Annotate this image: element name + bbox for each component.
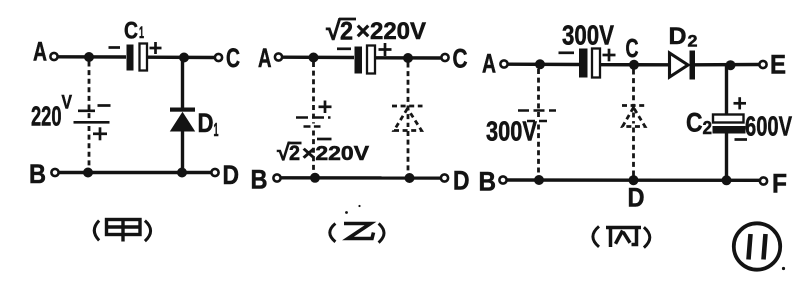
svg-text:C: C: [124, 18, 138, 45]
C2 reference label: [686, 108, 712, 139]
caption (bing): [593, 226, 650, 247]
svg-text:×220V: ×220V: [356, 18, 426, 45]
D1 reference label: [198, 108, 219, 140]
junction (top left): [309, 53, 319, 63]
svg-text:D: D: [453, 166, 470, 196]
svg-text:C: C: [453, 44, 468, 74]
svg-text:300V: 300V: [562, 20, 614, 51]
wire junction to diode D1: [181, 58, 184, 109]
junction (top, C2 branch): [726, 60, 736, 70]
caption (jia): [94, 220, 150, 242]
terminal E: [759, 61, 766, 68]
svg-text:2: 2: [688, 32, 698, 51]
wire dashed source top: [312, 62, 315, 124]
svg-text:1: 1: [214, 120, 219, 140]
junction (bottom, C2 branch): [722, 175, 732, 185]
C1 value label: [124, 18, 144, 45]
source plus sign: [93, 127, 107, 140]
wire dashed source top: [537, 69, 540, 118]
caption (yi): [330, 224, 384, 243]
wire capacitor to terminal C: [148, 56, 215, 60]
junction (bottom right): [177, 168, 187, 178]
C2 minus polarity: [735, 138, 748, 141]
svg-text:220: 220: [31, 101, 62, 132]
capacitor 300V: [579, 49, 600, 78]
capacitor minus polarity: [337, 47, 351, 50]
svg-text:√: √: [326, 16, 341, 46]
capacitor plus polarity: [379, 43, 392, 56]
diode D1: [170, 108, 195, 132]
svg-text:300V: 300V: [486, 116, 537, 147]
svg-text:B: B: [29, 159, 46, 189]
capacitor C1: [127, 44, 148, 71]
C1 minus polarity: [109, 46, 121, 49]
svg-text:F: F: [772, 169, 787, 199]
wire capacitor to terminal C: [376, 56, 441, 60]
junction (bottom left): [83, 168, 93, 178]
svg-text:1: 1: [139, 23, 144, 42]
figure number 11 (circled): [734, 223, 780, 269]
dashed diode (conducting path): [392, 106, 423, 131]
junction node D: [629, 175, 639, 185]
wire B to F (bottom): [507, 178, 760, 182]
wire diode to terminal E: [695, 63, 759, 67]
svg-text:A: A: [258, 43, 272, 73]
svg-text:600V: 600V: [745, 111, 792, 142]
C1 plus polarity: [150, 42, 162, 54]
source battery sqrt2x220V (dashed): [296, 118, 331, 127]
svg-text:2: 2: [703, 118, 713, 138]
wire dashed diode top: [632, 70, 635, 124]
terminal B: [51, 169, 58, 176]
wire junction to capacitor C2: [725, 65, 728, 115]
terminal D: [441, 174, 448, 181]
terminal A: [275, 53, 282, 60]
source battery 300V (dashed): [518, 111, 556, 122]
dashed diode (conducting path): [622, 106, 646, 127]
svg-text:A: A: [482, 49, 496, 79]
source minus sign: [98, 104, 111, 107]
wire diode to bottom: [181, 132, 184, 174]
wire B to D (bottom): [281, 176, 440, 180]
diode D2: [670, 51, 696, 80]
wire dashed source bottom: [88, 126, 91, 170]
svg-text:D: D: [223, 160, 240, 190]
terminal B: [499, 176, 506, 183]
wire dashed source top: [88, 62, 91, 120]
junction (bottom right): [405, 173, 415, 183]
terminal F: [760, 177, 767, 184]
terminal D: [211, 169, 218, 176]
wire A to capacitor: [508, 62, 579, 66]
wire dashed source bottom: [312, 131, 315, 175]
wire dashed diode top: [407, 63, 410, 128]
svg-text:B: B: [251, 165, 268, 195]
junction (bottom left): [534, 175, 544, 185]
terminal A: [500, 60, 507, 67]
junction (top left): [84, 52, 94, 62]
junction (top right): [179, 53, 189, 63]
terminal A: [50, 53, 57, 60]
svg-text:E: E: [770, 50, 786, 80]
capacitor minus polarity: [559, 51, 575, 54]
terminal C: [441, 54, 448, 61]
svg-text:×220V: ×220V: [302, 143, 370, 165]
capacitor plus polarity: [603, 49, 616, 62]
svg-text:C: C: [226, 43, 240, 73]
svg-text:C: C: [626, 33, 639, 63]
junction (bottom left): [310, 173, 320, 183]
source minus sign: [317, 138, 332, 141]
wire B to D (bottom): [59, 171, 211, 174]
svg-text:2: 2: [289, 142, 300, 165]
wire capacitor to diode: [600, 63, 670, 67]
C2 plus polarity: [734, 97, 747, 109]
junction (top left): [535, 59, 545, 69]
wire capacitor C2 to bottom: [725, 133, 728, 181]
wire dashed diode bottom: [632, 128, 635, 178]
svg-text:C: C: [686, 108, 703, 138]
sqrt2 x 220V top value label: [326, 16, 426, 46]
source battery 220V (dashed instantaneous): [74, 111, 110, 123]
wire dashed source bottom: [537, 125, 540, 177]
svg-text:B: B: [479, 167, 497, 197]
wire A to capacitor: [58, 55, 126, 59]
220V value label: [31, 93, 72, 132]
junction node C: [629, 60, 639, 70]
terminal C: [215, 54, 222, 61]
wire dashed diode bottom: [407, 131, 410, 174]
svg-text:D: D: [669, 23, 687, 50]
D2 reference label: [669, 23, 698, 51]
source plus sign: [319, 101, 332, 114]
wire A to capacitor: [283, 56, 355, 60]
junction (top right): [403, 53, 413, 63]
svg-text:D: D: [198, 108, 214, 138]
svg-text:2: 2: [340, 18, 353, 46]
svg-text:V: V: [62, 93, 73, 114]
terminal B: [273, 174, 280, 181]
svg-text:D: D: [628, 183, 645, 213]
sqrt2 x 220V source value label: [277, 139, 370, 165]
capacitor C2: [713, 115, 746, 134]
svg-text:A: A: [33, 37, 47, 67]
capacitor (unlabeled electrolytic): [355, 46, 376, 74]
